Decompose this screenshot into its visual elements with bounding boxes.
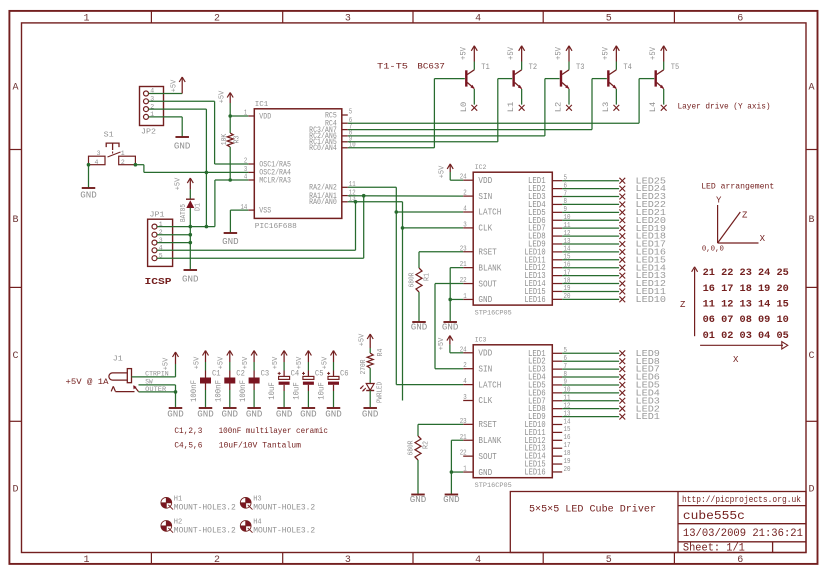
svg-text:17: 17: [564, 442, 571, 450]
svg-text:PWRLED: PWRLED: [377, 382, 385, 403]
svg-text:4: 4: [475, 13, 481, 24]
svg-text:1: 1: [121, 150, 125, 157]
svg-text:5: 5: [349, 109, 352, 117]
svg-text:LED1: LED1: [636, 411, 661, 422]
svg-text:RC0/AN4: RC0/AN4: [309, 145, 337, 153]
svg-text:IC3: IC3: [475, 337, 487, 344]
svg-text:MOUNT-HOLE3.2: MOUNT-HOLE3.2: [253, 504, 315, 513]
svg-text:1: 1: [83, 13, 89, 24]
svg-text:14: 14: [564, 418, 571, 426]
svg-text:GND: GND: [276, 409, 293, 419]
svg-text:VSS: VSS: [259, 207, 271, 215]
svg-text:5×5×5 LED Cube Driver: 5×5×5 LED Cube Driver: [529, 504, 656, 516]
svg-text:+5V: +5V: [554, 47, 563, 60]
svg-text:Y: Y: [716, 196, 722, 206]
svg-text:5: 5: [606, 555, 612, 566]
svg-text:LATCH: LATCH: [478, 379, 501, 390]
svg-text:GND: GND: [410, 495, 427, 505]
svg-text:RSET: RSET: [478, 419, 497, 430]
svg-text:100nF: 100nF: [215, 380, 224, 402]
svg-text:10uF: 10uF: [268, 382, 277, 400]
svg-text:+5V: +5V: [321, 356, 329, 369]
svg-text:H3: H3: [253, 496, 261, 504]
svg-text:D1: D1: [195, 203, 203, 211]
svg-text:GND: GND: [222, 237, 239, 247]
svg-text:T3: T3: [576, 62, 585, 72]
svg-text:+5V: +5V: [296, 356, 304, 369]
svg-text:LED arrangement: LED arrangement: [701, 181, 774, 191]
svg-text:+5V: +5V: [162, 357, 170, 370]
svg-text:13/03/2009 21:36:21: 13/03/2009 21:36:21: [683, 528, 803, 540]
svg-text:10uF: 10uF: [318, 382, 327, 400]
svg-text:1: 1: [463, 466, 467, 474]
svg-text:4: 4: [95, 159, 99, 166]
svg-text:GND: GND: [80, 191, 97, 201]
svg-text:STP16CP05: STP16CP05: [475, 310, 512, 317]
svg-text:3: 3: [463, 221, 467, 229]
svg-text:MCLR/RA3: MCLR/RA3: [259, 177, 291, 185]
svg-text:A: A: [12, 83, 18, 94]
svg-text:cube555c: cube555c: [683, 509, 745, 523]
svg-text:+5V: +5V: [242, 356, 250, 369]
svg-text:T1: T1: [481, 62, 490, 72]
svg-text:D: D: [808, 485, 814, 496]
svg-text:GND: GND: [197, 409, 214, 419]
svg-text:Z: Z: [742, 211, 748, 221]
svg-text:SOUT: SOUT: [478, 451, 497, 462]
svg-text:H2: H2: [174, 519, 182, 527]
svg-text:+5V @ 1A: +5V @ 1A: [66, 377, 110, 387]
svg-text:L2: L2: [553, 102, 563, 113]
svg-text:IC1: IC1: [255, 101, 269, 109]
svg-text:MOUNT-HOLE3.2: MOUNT-HOLE3.2: [174, 527, 236, 536]
svg-text:CLK: CLK: [478, 395, 492, 406]
svg-text:GND: GND: [362, 409, 379, 419]
svg-text:L3: L3: [601, 102, 611, 113]
svg-text:680R: 680R: [409, 272, 417, 288]
svg-text:10uF/10V Tantalum: 10uF/10V Tantalum: [219, 440, 301, 450]
svg-text:VDD: VDD: [259, 113, 271, 121]
svg-text:PIC16F688: PIC16F688: [255, 223, 297, 231]
svg-text:A: A: [808, 83, 814, 94]
svg-text:R3: R3: [233, 136, 241, 144]
svg-text:LED10: LED10: [636, 294, 667, 305]
svg-text:SIN: SIN: [478, 191, 492, 202]
svg-text:2: 2: [214, 13, 220, 24]
svg-text:C3: C3: [261, 368, 270, 378]
svg-text:+5V: +5V: [218, 90, 226, 103]
svg-text:VDD: VDD: [478, 175, 492, 186]
svg-text:01 02 03 04 05: 01 02 03 04 05: [703, 330, 789, 342]
svg-text:GND: GND: [300, 409, 317, 419]
svg-text:+5V: +5V: [507, 47, 516, 60]
svg-text:RSET: RSET: [478, 246, 497, 257]
svg-text:GND: GND: [478, 467, 492, 478]
svg-text:2: 2: [463, 190, 467, 198]
svg-text:GND: GND: [222, 409, 239, 419]
svg-text:+5V: +5V: [272, 356, 280, 369]
svg-text:20: 20: [564, 466, 571, 474]
svg-text:3: 3: [97, 150, 101, 157]
svg-text:10K: 10K: [221, 133, 229, 145]
svg-text:Z: Z: [680, 300, 686, 310]
svg-text:SOUT: SOUT: [478, 278, 497, 289]
svg-text:GND: GND: [182, 275, 199, 285]
svg-text:STP16CP05: STP16CP05: [475, 482, 512, 489]
svg-text:BAT85: BAT85: [180, 204, 188, 222]
svg-text:+5V: +5V: [170, 79, 178, 92]
svg-text:4: 4: [463, 378, 467, 386]
svg-text:J1: J1: [113, 356, 124, 364]
svg-text:S1: S1: [104, 132, 115, 140]
svg-text:+5V: +5V: [218, 356, 226, 369]
svg-text:11 12 13 14 15: 11 12 13 14 15: [703, 299, 789, 311]
svg-text:100nF: 100nF: [190, 380, 199, 402]
svg-text:+5V: +5V: [438, 165, 446, 178]
svg-text:3: 3: [345, 13, 351, 24]
svg-text:H4: H4: [253, 519, 261, 527]
svg-text:T2: T2: [529, 62, 538, 72]
svg-text:LATCH: LATCH: [478, 207, 501, 218]
svg-text:Layer drive (Y axis): Layer drive (Y axis): [678, 103, 771, 112]
svg-text:LED16: LED16: [524, 466, 545, 477]
svg-text:C: C: [12, 351, 18, 362]
svg-text:D: D: [12, 485, 18, 496]
svg-text:GND: GND: [167, 409, 184, 419]
svg-text:T5: T5: [671, 62, 680, 72]
svg-text:C4,5,6: C4,5,6: [174, 440, 202, 450]
svg-text:16: 16: [564, 434, 571, 442]
svg-text:MOUNT-HOLE3.2: MOUNT-HOLE3.2: [253, 527, 315, 536]
svg-text:+5V: +5V: [649, 47, 658, 60]
svg-text:T4: T4: [623, 62, 632, 72]
svg-text:B: B: [12, 215, 18, 226]
svg-text:22: 22: [460, 450, 467, 458]
svg-text:BLANK: BLANK: [478, 435, 501, 446]
svg-text:+5V: +5V: [460, 47, 469, 60]
svg-text:6: 6: [737, 13, 743, 24]
svg-text:1: 1: [463, 293, 467, 301]
svg-text:5: 5: [606, 13, 612, 24]
svg-text:T1-T5: T1-T5: [377, 62, 408, 72]
svg-text:C: C: [808, 351, 814, 362]
svg-text:19: 19: [564, 458, 571, 466]
svg-text:X: X: [733, 355, 739, 365]
svg-text:IC2: IC2: [475, 164, 487, 171]
svg-text:C6: C6: [340, 368, 349, 378]
svg-text:21 22 23 24 25: 21 22 23 24 25: [703, 267, 789, 279]
svg-text:GND: GND: [325, 409, 342, 419]
svg-text:ICSP: ICSP: [145, 276, 172, 287]
svg-text:VDD: VDD: [478, 348, 492, 359]
svg-text:SIN: SIN: [478, 363, 492, 374]
svg-text:GND: GND: [246, 409, 263, 419]
svg-text:GND: GND: [442, 323, 459, 333]
svg-text:L1: L1: [506, 102, 516, 113]
svg-text:JP2: JP2: [141, 129, 156, 137]
svg-text:4: 4: [475, 555, 481, 566]
svg-text:B: B: [808, 215, 814, 226]
svg-text:680R: 680R: [408, 440, 416, 456]
svg-text:10uF: 10uF: [293, 382, 302, 400]
svg-text:+5V: +5V: [174, 177, 182, 190]
svg-text:+5V: +5V: [602, 47, 611, 60]
svg-text:15: 15: [564, 426, 571, 434]
svg-text:MOUNT-HOLE3.2: MOUNT-HOLE3.2: [174, 504, 236, 513]
svg-text:18: 18: [564, 450, 571, 458]
svg-text:4: 4: [463, 206, 467, 214]
svg-text:http://picprojects.org.uk: http://picprojects.org.uk: [682, 494, 801, 505]
svg-text:6: 6: [737, 555, 743, 566]
svg-text:RA0/AN0: RA0/AN0: [309, 199, 337, 207]
svg-text:R1: R1: [423, 273, 431, 281]
svg-text:0,0,0: 0,0,0: [702, 245, 724, 253]
svg-text:BC637: BC637: [417, 62, 445, 72]
svg-text:06 07 08 09 10: 06 07 08 09 10: [703, 314, 789, 326]
svg-text:R4: R4: [377, 349, 385, 357]
svg-text:L0: L0: [459, 102, 469, 113]
svg-text:16 17 18 19 20: 16 17 18 19 20: [703, 283, 789, 295]
svg-text:+5V: +5V: [438, 337, 446, 350]
svg-text:C1,2,3: C1,2,3: [174, 426, 202, 436]
svg-text:BLANK: BLANK: [478, 262, 501, 273]
svg-text:100nF: 100nF: [239, 380, 248, 402]
svg-text:+5V: +5V: [193, 356, 201, 369]
svg-text:3: 3: [463, 394, 467, 402]
svg-text:GND: GND: [478, 294, 492, 305]
svg-text:RA2/AN2: RA2/AN2: [309, 185, 337, 193]
svg-text:CLK: CLK: [478, 223, 492, 234]
svg-text:2: 2: [121, 159, 125, 166]
svg-text:GND: GND: [411, 323, 428, 333]
svg-text:100nF multilayer ceramic: 100nF multilayer ceramic: [219, 426, 328, 436]
svg-text:1: 1: [83, 555, 89, 566]
svg-text:OSC1/RA5: OSC1/RA5: [259, 161, 291, 169]
svg-text:GND: GND: [174, 142, 191, 152]
svg-text:+5V: +5V: [358, 333, 366, 346]
svg-text:L4: L4: [648, 102, 658, 113]
svg-text:GND: GND: [443, 495, 460, 505]
svg-text:JP1: JP1: [150, 212, 166, 220]
svg-text:2: 2: [214, 555, 220, 566]
svg-text:LED16: LED16: [524, 294, 545, 305]
svg-text:RC5: RC5: [325, 112, 337, 120]
svg-text:3: 3: [345, 555, 351, 566]
svg-text:Sheet: 1/1: Sheet: 1/1: [683, 543, 745, 555]
svg-text:H1: H1: [174, 496, 182, 504]
svg-text:2: 2: [463, 362, 467, 370]
svg-text:R2: R2: [422, 441, 430, 449]
svg-text:X: X: [760, 234, 766, 244]
svg-text:270R: 270R: [360, 359, 368, 375]
